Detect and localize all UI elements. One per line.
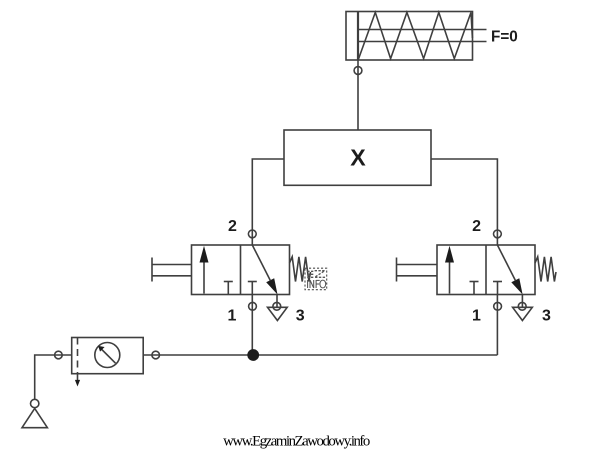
- air service unit U1 regulator gauge: [95, 343, 120, 368]
- label F=0: [491, 29, 518, 46]
- valve V2 plunger actuator: [397, 258, 438, 282]
- valve V1 right square blocked port T: [248, 282, 257, 295]
- label V2 port 2: [472, 218, 481, 235]
- cylinder C1 return spring: [359, 12, 473, 59]
- label V1 port 1: [227, 308, 236, 325]
- valve V1 exhaust silencer triangle: [268, 307, 288, 320]
- wire cylinder port to box X: [357, 60, 359, 130]
- watermark EZ INFO box: [305, 268, 327, 290]
- valve V2 right square blocked port T: [493, 282, 502, 295]
- wire box X left to valve V1 port 2: [252, 159, 284, 245]
- air service unit U1 filter dashed separator: [77, 338, 79, 374]
- cylinder C1 supply port: [354, 67, 362, 75]
- wire box X right to valve V2 port 2: [431, 159, 497, 245]
- svg-text:1: 1: [227, 308, 236, 325]
- valve V2 right square flow path 2-3 with arrow: [497, 245, 522, 295]
- cylinder C1 piston: [357, 12, 359, 61]
- watermark word INFO: [308, 280, 326, 288]
- svg-text:3: 3: [296, 308, 305, 325]
- label V1 port 2: [228, 218, 237, 235]
- valve V1 plunger actuator: [152, 258, 192, 282]
- valve V2 port 2 connector: [494, 230, 502, 238]
- air service unit U1 drain arrow: [75, 374, 80, 387]
- valve V1 port 2 connector: [248, 230, 256, 238]
- wire V1 port 1 down to bus: [251, 295, 253, 356]
- watermark letter E: [307, 271, 313, 277]
- valve V1 right square flow path 2-3 with arrow: [252, 245, 277, 295]
- valve V1 left square flow arrow 1-2: [200, 246, 209, 294]
- compressed air source P: [22, 399, 47, 427]
- cylinder C1 piston rod: [358, 30, 487, 42]
- air service unit U1 outlet connector: [152, 351, 160, 359]
- air service unit U1 inlet connector: [55, 351, 63, 359]
- valve V1 return spring: [290, 257, 311, 282]
- valve V2 left square blocked port T: [470, 282, 479, 295]
- label V1 port 3: [296, 308, 305, 325]
- footer site caption: [223, 434, 370, 450]
- cylinder C1 body (single-acting, spring return): [346, 12, 473, 61]
- air service unit U1 body: [72, 338, 144, 374]
- svg-text:2: 2: [472, 218, 481, 235]
- valve V2 port 1 connector: [494, 302, 502, 310]
- valve V2 body (3/2 valve): [437, 245, 535, 295]
- junction node supply bus: [247, 349, 259, 361]
- label V2 port 1: [472, 308, 481, 325]
- watermark letter Z: [315, 271, 326, 278]
- valve V2 port 3 connector: [518, 295, 526, 311]
- valve V2 exhaust silencer triangle: [513, 307, 533, 320]
- valve V1 port 3 connector: [273, 295, 281, 311]
- svg-text:1: 1: [472, 308, 481, 325]
- svg-text:3: 3: [542, 308, 551, 325]
- wire supply bus: [143, 354, 497, 356]
- svg-text:www.EgzaminZawodowy.info: www.EgzaminZawodowy.info: [223, 434, 370, 450]
- wire source to unit U1 inlet: [35, 355, 72, 400]
- valve V1 left square blocked port T: [224, 282, 233, 295]
- svg-text:X: X: [350, 144, 366, 170]
- label V2 port 3: [542, 308, 551, 325]
- svg-text:2: 2: [228, 218, 237, 235]
- valve V1 body (3/2 valve): [192, 245, 290, 295]
- logic box X: [284, 130, 431, 185]
- svg-text:F=0: F=0: [491, 29, 518, 46]
- valve V1 port 1 connector: [249, 302, 257, 310]
- valve V2 return spring: [535, 257, 556, 282]
- wire V2 port 1 down to bus: [496, 295, 498, 356]
- valve V2 left square flow arrow 1-2: [445, 246, 454, 294]
- label X: [350, 144, 366, 170]
